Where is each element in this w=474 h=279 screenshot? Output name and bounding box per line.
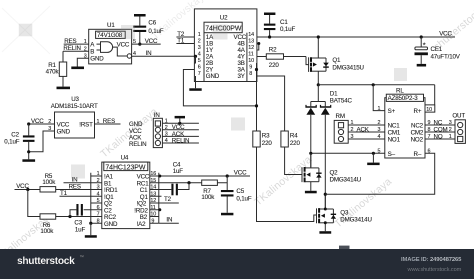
resistor R6: [28, 190, 40, 217]
svg-text:Q3: Q3: [340, 210, 349, 217]
svg-text:74HC123PW: 74HC123PW: [105, 164, 145, 171]
wire RL pin7 NO: [425, 138, 455, 140]
svg-text:3: 3: [449, 120, 452, 126]
wire Q3 drain to relay R-: [325, 153, 434, 194]
connector RM: [334, 120, 348, 143]
svg-text:VCC: VCC: [31, 118, 44, 125]
svg-text:220: 220: [290, 140, 301, 147]
U4 left pad ladder: [91, 173, 102, 223]
svg-text:U2: U2: [220, 15, 228, 22]
svg-text:16: 16: [150, 171, 156, 177]
svg-text:8: 8: [97, 219, 100, 225]
svg-text:0,1uF: 0,1uF: [4, 138, 19, 145]
wire VCC left: [15, 189, 41, 191]
U1 part label 74V1G08: [96, 31, 126, 38]
svg-text:AZ850P2-3: AZ850P2-3: [388, 95, 419, 102]
svg-text:ACK: ACK: [357, 126, 370, 133]
svg-text:*: *: [423, 40, 426, 49]
U3 body: [55, 112, 95, 138]
svg-text:C3: C3: [74, 219, 82, 226]
svg-text:2: 2: [84, 46, 87, 52]
svg-text:14: 14: [150, 185, 156, 191]
svg-text:12: 12: [248, 45, 254, 51]
diode D1: [305, 85, 331, 115]
svg-text:7: 7: [97, 212, 100, 218]
svg-text:DMG3414U: DMG3414U: [330, 176, 361, 183]
svg-text:0,1uF: 0,1uF: [236, 196, 251, 203]
svg-text:™: ™: [80, 255, 85, 260]
U4 body: [102, 162, 150, 229]
ground (Q3 source): [319, 231, 331, 234]
ground (C5): [221, 213, 233, 216]
svg-text:2: 2: [97, 178, 100, 184]
wire S- line Q2 drain to relay pin5: [311, 152, 385, 154]
svg-text:RELIN: RELIN: [129, 141, 146, 148]
wire U2 pin6 2Y route: [183, 70, 256, 106]
svg-text:9: 9: [249, 65, 252, 71]
svg-text:RES: RES: [69, 183, 81, 190]
svg-text:47uFT/10V: 47uFT/10V: [431, 53, 461, 60]
svg-text:3: 3: [165, 132, 168, 138]
svg-text:470k: 470k: [46, 68, 60, 75]
wire T1 to U2 pin2: [176, 43, 194, 45]
svg-text:11: 11: [150, 205, 155, 211]
wire U3 pin3 GND: [29, 131, 55, 152]
wire T1 to U4 pin4: [60, 195, 91, 197]
ground (C2): [22, 159, 35, 162]
svg-text:GND: GND: [104, 221, 118, 228]
node pin9 tie: [255, 68, 258, 71]
U2 part label 74HC00PW: [204, 22, 242, 33]
svg-text:DMG3415U: DMG3415U: [332, 64, 363, 71]
wire RES to U1 pin1: [64, 43, 89, 45]
svg-text:13: 13: [150, 192, 156, 198]
svg-text:NC2: NC2: [411, 122, 424, 129]
connector IN: [153, 118, 162, 147]
wire U2 pin8 3Y to R4 column: [257, 76, 285, 131]
wire IN to U4 pin2: [64, 182, 91, 184]
svg-text:4: 4: [198, 52, 201, 58]
wire U4 pin13 stub: [159, 195, 162, 197]
ground on S- line: [372, 152, 375, 155]
node Q2 drain junction: [309, 152, 312, 155]
svg-text:5: 5: [97, 198, 100, 204]
svg-text:T1: T1: [60, 190, 68, 197]
svg-text:U4: U4: [121, 155, 129, 162]
svg-text:shutterstock: shutterstock: [17, 256, 75, 267]
resistor R1: [62, 51, 64, 62]
capacitor C5: [221, 190, 234, 192]
svg-text:1: 1: [198, 32, 201, 38]
svg-text:9: 9: [151, 219, 154, 225]
svg-text:11: 11: [248, 52, 253, 58]
wire RELIN to U1 pin2: [63, 50, 89, 52]
svg-text:B: B: [90, 49, 94, 56]
wire IN pin3 ACK: [162, 135, 199, 137]
svg-text:VCC: VCC: [439, 31, 452, 38]
svg-text:CM1: CM1: [388, 129, 401, 136]
svg-text:COM: COM: [434, 126, 448, 133]
wire U2 pin7 GND down: [195, 76, 197, 88]
resistor R3: [253, 131, 260, 147]
wire R4 to Q2 gate: [285, 147, 302, 175]
svg-text:NO2: NO2: [411, 136, 424, 143]
svg-text:GND: GND: [57, 129, 71, 136]
svg-text:NC: NC: [434, 119, 443, 126]
svg-text:GND: GND: [90, 56, 104, 63]
svg-text:!A2: !A2: [137, 221, 147, 228]
node C6/VCC junction: [138, 43, 141, 46]
svg-text:100k: 100k: [40, 228, 54, 235]
AND gate inside U1: [97, 42, 113, 53]
node IN junction at U2 pin4: [194, 55, 197, 58]
RL part label AZ850P2-3: [386, 94, 423, 101]
svg-text:4: 4: [133, 51, 136, 57]
svg-text:RM: RM: [336, 113, 345, 120]
wire U4 pin16 VCC: [159, 175, 250, 177]
transistor Q2: [302, 153, 322, 191]
svg-text:VCC: VCC: [145, 38, 158, 45]
svg-text:2: 2: [48, 119, 51, 125]
svg-text:1: 1: [97, 171, 100, 177]
node pin13 tie: [257, 42, 260, 45]
svg-text:3: 3: [97, 185, 100, 191]
svg-text:S–: S–: [388, 151, 396, 158]
wire RM pin2 ACK to RL CM1: [348, 131, 385, 133]
svg-text:RES: RES: [64, 38, 76, 45]
svg-text:4: 4: [97, 192, 100, 198]
svg-text:100k: 100k: [42, 179, 56, 186]
svg-text:S+: S+: [388, 108, 396, 115]
svg-text:7: 7: [198, 71, 201, 77]
svg-text:8: 8: [249, 71, 252, 77]
ground (U1 pin3): [71, 67, 84, 70]
svg-text:0,1uF: 0,1uF: [280, 26, 295, 33]
ground (R1): [57, 87, 71, 90]
wire D1 left anode down to Q2 drain: [310, 115, 312, 168]
svg-text:C5: C5: [236, 188, 244, 195]
connector OUT: [455, 120, 465, 144]
transistor Q1: [309, 37, 329, 85]
ground bar (IN pin1): [175, 116, 185, 119]
svg-text:DMG3414U: DMG3414U: [340, 217, 371, 224]
svg-text:BAT54C: BAT54C: [330, 98, 353, 105]
svg-text:14: 14: [248, 32, 254, 38]
svg-text:1: 1: [449, 134, 452, 140]
svg-text:RELIN: RELIN: [63, 45, 80, 52]
node Q1 source / VCC rail: [317, 35, 320, 38]
wire U2 pin10/pin9 to R3 column: [256, 63, 258, 131]
wire IN pin2 VCC: [162, 129, 199, 131]
capacitor C3: [70, 210, 91, 217]
capacitor C4: [159, 189, 172, 191]
svg-text:5: 5: [133, 39, 136, 45]
transistor Q3: [317, 194, 337, 231]
wire R2 to Q1 gate: [306, 57, 309, 65]
svg-text:VCC: VCC: [117, 41, 130, 48]
svg-text:100k: 100k: [201, 194, 215, 201]
svg-text:1uF: 1uF: [75, 226, 86, 233]
wire U1 pin4 IN to U2: [132, 55, 196, 57]
svg-text:IN: IN: [146, 50, 152, 57]
wire T2 at U4 pin12: [159, 202, 179, 204]
svg-text:IMAGE ID: 2490487265: IMAGE ID: 2490487265: [401, 257, 462, 263]
svg-text:74V1G08: 74V1G08: [97, 32, 123, 39]
svg-text:13: 13: [248, 39, 254, 45]
wire IN pin4 RELIN: [162, 142, 199, 144]
node VCC/C5: [226, 174, 229, 177]
resistor R4: [281, 131, 288, 147]
svg-text:1: 1: [97, 119, 100, 125]
watermark overlay squares (decorative): [19, 24, 407, 179]
capacitor C2: [27, 122, 30, 125]
svg-text:VCC: VCC: [234, 169, 247, 176]
svg-text:6: 6: [97, 205, 100, 211]
svg-text:OUT: OUT: [452, 113, 465, 120]
node C2/GND junction: [27, 150, 30, 153]
svg-text:R3: R3: [262, 133, 270, 140]
node Q3 drain R- junction: [324, 193, 327, 196]
svg-text:Q1: Q1: [332, 57, 341, 64]
svg-text:RELIN: RELIN: [172, 137, 189, 144]
svg-text:C6: C6: [148, 19, 156, 26]
node R6/C3 junction: [68, 215, 71, 218]
svg-text:ADM1815-10ART: ADM1815-10ART: [51, 103, 98, 110]
ground (U4 pin8): [85, 235, 97, 238]
svg-text:!RST: !RST: [79, 122, 93, 129]
ground (U2 pin7): [189, 88, 201, 91]
svg-text:3: 3: [198, 45, 201, 51]
resistor R5: [40, 187, 56, 192]
VCC rail from U2 pin14: [257, 36, 456, 38]
capacitor C1: [264, 13, 275, 16]
svg-text:3Y: 3Y: [238, 73, 245, 80]
svg-text:D1: D1: [330, 91, 338, 98]
svg-text:2: 2: [449, 127, 452, 133]
svg-text:R+: R+: [414, 108, 422, 115]
node S+ branch: [372, 83, 375, 86]
node C1/VCC rail: [268, 35, 271, 38]
node U4 pin11: [158, 208, 161, 211]
svg-text:4: 4: [165, 138, 168, 144]
svg-text:U1: U1: [107, 22, 115, 29]
svg-text:R2: R2: [269, 47, 277, 54]
svg-text:NC1: NC1: [388, 122, 401, 129]
U2 body: [194, 9, 257, 82]
svg-text:220: 220: [269, 62, 280, 69]
svg-text:1: 1: [84, 39, 87, 45]
svg-text:RL: RL: [396, 87, 404, 94]
wire U3 pin1 RST to RES: [95, 123, 121, 125]
svg-text:5: 5: [378, 149, 381, 155]
wire R3 to Q3 gate: [257, 147, 317, 222]
resistor R2: [257, 56, 267, 58]
wire RM pin3 to RL NO1: [348, 138, 385, 140]
svg-text:NO: NO: [434, 133, 443, 140]
node C4/RC1: [187, 181, 190, 184]
svg-text:CM2: CM2: [411, 129, 424, 136]
svg-text:2: 2: [165, 125, 168, 131]
capacitor CE1 electrolytic: [420, 35, 423, 38]
svg-text:15: 15: [150, 178, 156, 184]
wire tie U2 pin13-pin12: [257, 44, 259, 51]
svg-text:5: 5: [198, 58, 201, 64]
wire D1 right anode down to Q3 drain: [324, 115, 326, 209]
svg-text:1: 1: [165, 119, 168, 125]
svg-text:www.shutterstock.com: www.shutterstock.com: [407, 267, 462, 273]
node VCC/R6 branch: [26, 188, 29, 191]
output bubble U1: [127, 54, 131, 58]
svg-text:R4: R4: [290, 133, 298, 140]
svg-text:R–: R–: [414, 151, 422, 158]
svg-text:1: 1: [351, 120, 354, 126]
wire tie U2 pin4-pin5: [194, 56, 195, 63]
ground (Q2 source): [305, 191, 317, 194]
wire RL pin9 NC: [425, 124, 455, 126]
wire U1 pin5 VCC: [132, 43, 161, 45]
svg-text:2: 2: [351, 127, 354, 133]
svg-text:220: 220: [262, 140, 273, 147]
svg-text:IN: IN: [166, 216, 172, 223]
svg-text:T1: T1: [177, 38, 185, 45]
node 2Y/R3 junction: [255, 104, 258, 107]
svg-text:0,1uF: 0,1uF: [148, 28, 163, 35]
wire U4 pin15 RC1 through R7: [159, 182, 202, 184]
svg-text:C2: C2: [11, 131, 19, 138]
bottom shutterstock bar: [0, 249, 474, 279]
svg-text:3: 3: [351, 134, 354, 140]
svg-text:IN: IN: [154, 112, 160, 119]
svg-text:U3: U3: [71, 96, 79, 103]
wire U1 pin3 to ground: [77, 58, 88, 66]
svg-text:VCC: VCC: [57, 122, 70, 129]
wire VCC to U3 pin2: [29, 123, 55, 125]
svg-text:2: 2: [198, 39, 201, 45]
wire U4 pin8 GND: [89, 222, 92, 225]
wire T2 to U2 pin1: [176, 36, 194, 38]
wire RL pin8 COM: [425, 131, 455, 133]
U4 part label 74HC123PW: [104, 162, 148, 171]
svg-text:12: 12: [150, 198, 156, 204]
svg-text:10: 10: [150, 212, 156, 218]
svg-text:NO1: NO1: [388, 136, 401, 143]
wire IN pin1 to ground: [162, 122, 199, 124]
svg-text:10: 10: [426, 107, 432, 113]
svg-text:6: 6: [428, 149, 431, 155]
svg-text:6: 6: [198, 65, 201, 71]
U4 right pad ladder: [150, 173, 159, 223]
wire RM pin1 to RL NC1: [348, 124, 385, 126]
wire IN at U4 pin9: [159, 222, 179, 224]
svg-text:GND: GND: [206, 73, 220, 80]
svg-text:1: 1: [378, 106, 381, 112]
svg-text:T2: T2: [164, 196, 172, 203]
relay RL body: [385, 98, 425, 158]
wire Q1 drain to relay S+ / R+: [317, 83, 320, 86]
svg-text:10: 10: [248, 58, 254, 64]
svg-text:RES: RES: [103, 118, 115, 125]
svg-text:1uF: 1uF: [173, 168, 184, 175]
resistor R7: [202, 180, 218, 185]
capacitor C6: [134, 14, 146, 17]
svg-text:CE1: CE1: [431, 46, 443, 53]
U1 body: [89, 29, 132, 64]
